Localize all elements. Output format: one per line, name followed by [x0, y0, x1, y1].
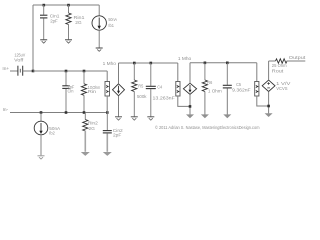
ground under VCVS [265, 113, 273, 117]
wire In+ to battery [10, 70, 18, 72]
resistor Rin 1GOhm (differential) [81, 71, 100, 113]
svg-text:Ib1: Ib1 [108, 23, 114, 29]
capacitor C4 13.263nF [146, 63, 175, 117]
wire box1 bottom pin to In- rail [106, 96, 108, 113]
svg-text:Voff: Voff [14, 57, 24, 63]
ground under Cin1 [40, 40, 47, 43]
svg-text:Rout: Rout [272, 69, 284, 75]
VCCS G1 output diamond (1 Mho) [113, 84, 125, 96]
svg-text:© 2011 Adrian S. Nastase, Mast: © 2011 Adrian S. Nastase, MasteringElect… [155, 124, 260, 130]
current source Ib1 50nA [92, 5, 118, 48]
wire diamond3 down to ground join [268, 92, 270, 114]
node Cin top [65, 70, 68, 73]
svg-text:2G: 2G [75, 20, 82, 26]
svg-text:Cin: Cin [68, 89, 74, 95]
wire stage2 rail [190, 62, 257, 64]
svg-text:C4: C4 [157, 84, 162, 90]
node top wire Rin1 junction [67, 4, 70, 7]
wire diamond2 down to ground join [189, 94, 191, 114]
svg-text:13.263nF: 13.263nF [153, 96, 175, 102]
node C5 top [226, 62, 229, 65]
svg-text:25 Ohm: 25 Ohm [272, 63, 287, 69]
ground under Cin2 [103, 152, 112, 156]
ground under R6 [201, 114, 209, 118]
node Rin top [83, 70, 86, 73]
ground under diamond1 [115, 117, 122, 120]
ground under Ib2 [38, 156, 45, 159]
svg-text:9.362nF: 9.362nF [232, 87, 250, 93]
capacitor C5 9.362nF [223, 63, 251, 115]
battery Voff 125uV [14, 52, 26, 75]
wire stage1 rail end down to box2 [177, 63, 179, 82]
wire box3 bottom bend to ground join [257, 96, 269, 106]
svg-text:VCVS: VCVS [276, 86, 287, 92]
wire diamond1 down [118, 96, 120, 117]
ground under Rin2 [81, 152, 90, 156]
capacitor Cin2 2pF [103, 113, 123, 152]
wire diamond2 up [189, 63, 191, 83]
capacitor Cin 2pF (differential) [62, 71, 74, 113]
svg-text:In-: In- [3, 107, 9, 113]
wire battery to node [23, 70, 33, 72]
wire output left segment [269, 60, 276, 62]
wire left vertical to In+ node [32, 5, 34, 71]
svg-text:R6: R6 [207, 80, 212, 86]
node ground join VCVS [267, 105, 270, 108]
resistor Rin2 2G [83, 113, 98, 152]
svg-text:1 Mho: 1 Mho [103, 61, 117, 67]
wire box2 bottom bend to ground join [178, 96, 190, 106]
wire output right segment [287, 60, 306, 62]
wire top horizontal [33, 4, 99, 6]
svg-text:Rin: Rin [88, 89, 96, 95]
node R6 top [204, 62, 207, 65]
wire In+ rail corner down to box1 [106, 71, 108, 82]
svg-text:1 Mho: 1 Mho [178, 56, 192, 62]
VCCS G1 input box (1 Mho stage 1) [105, 82, 110, 97]
wire stage2 rail end down to box3 [256, 63, 258, 82]
svg-text:C5: C5 [236, 82, 241, 88]
svg-text:Rin2: Rin2 [88, 121, 98, 127]
capacitor Cin1 2pF [40, 5, 60, 39]
svg-text:Ib2: Ib2 [49, 131, 55, 137]
wire diamond1 up [118, 63, 120, 84]
resistor R5 500k [132, 63, 147, 117]
node ground join stage2 [189, 105, 192, 108]
node top wire Cin1 junction [43, 4, 46, 7]
wire diamond3 up to output [268, 61, 270, 80]
node Rin bottom [83, 111, 86, 114]
node C4 top [150, 62, 153, 65]
VCVS E1 input box [255, 82, 259, 97]
ground under diamond2 [186, 114, 194, 118]
svg-text:2pF: 2pF [50, 18, 58, 24]
wire In- rail [10, 112, 107, 114]
svg-text:Output: Output [289, 55, 306, 61]
resistor Rout 25 Ohm [272, 59, 287, 75]
VCVS E1 output diamond (1 V/V) [262, 80, 275, 91]
node R5 top [133, 62, 136, 65]
svg-text:R5: R5 [138, 83, 143, 89]
svg-text:2G: 2G [89, 126, 96, 132]
svg-text:500k: 500k [137, 94, 147, 100]
wire In+ rail [33, 70, 107, 72]
svg-text:50nA: 50nA [108, 17, 117, 23]
node Ib2 [40, 111, 43, 114]
ground under Rin1 [65, 40, 72, 43]
ground under Ib1 [96, 48, 103, 51]
node Cin bottom [65, 111, 68, 114]
wire stage1 rail [119, 62, 178, 64]
svg-text:125uV: 125uV [14, 52, 25, 58]
node In+ internal [32, 70, 35, 73]
ground under C5 [223, 114, 231, 118]
node In- end [106, 111, 109, 114]
VCCS G2 input box (1 Mho stage 2) [176, 82, 180, 97]
ground under R5 [131, 117, 138, 120]
resistor R6 1 Ohm [202, 63, 221, 115]
ground under C4 [147, 117, 154, 120]
svg-text:In+: In+ [2, 66, 9, 72]
svg-text:1 Ohm: 1 Ohm [208, 88, 222, 94]
current source Ib2 50nA [34, 113, 61, 156]
VCCS G2 output diamond (1 Mho) [183, 83, 196, 94]
svg-text:2pF: 2pF [113, 132, 121, 138]
resistor Rin1 2G [66, 5, 85, 39]
